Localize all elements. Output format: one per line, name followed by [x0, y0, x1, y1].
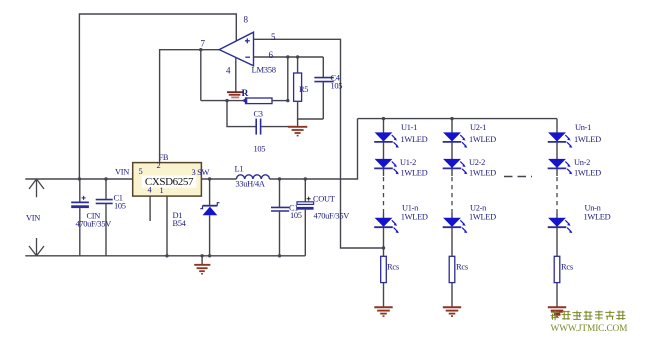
wire ground stem of R5/C4 node [297, 119, 299, 126]
node junction feed / string 2 [450, 117, 453, 120]
wire node to resistor R left lead [201, 100, 246, 102]
wire C3 right branch to ground [261, 126, 296, 128]
wire U2 string lower segment [451, 213, 453, 256]
svg-text:1WLED: 1WLED [469, 213, 496, 222]
wire COUT bottom lead joining bottom rail end [304, 210, 306, 256]
node junction VIN rail / C1 [104, 177, 107, 180]
svg-text:1WLED: 1WLED [401, 169, 428, 178]
svg-text:R5: R5 [299, 85, 308, 94]
LED Un-2 [548, 159, 573, 174]
svg-text:Rcs: Rcs [561, 261, 573, 271]
svg-text:1WLED: 1WLED [469, 169, 496, 178]
wire op-amp supply loop from VIN rail to pin 8 [79, 14, 236, 179]
earth ground of string Un [548, 307, 566, 316]
wire CIN top lead [79, 179, 81, 202]
wire U1 string dashed continuation [383, 177, 385, 213]
wire SW rail from IC pin3 [201, 178, 236, 180]
capacitor CIN (polarized) plates [71, 196, 89, 208]
wire LED anode feed line [358, 118, 558, 120]
capacitor COUT (polarized) plates [297, 197, 314, 210]
svg-text:B54: B54 [173, 219, 187, 228]
node junction ground stem / bottom rail [200, 254, 203, 257]
wire Un string lower segment [556, 213, 558, 256]
inductor L1 coils [236, 175, 269, 179]
svg-text:COUT: COUT [313, 194, 335, 203]
svg-text:105: 105 [254, 145, 266, 154]
wire op-amp pin 5 to LED current-sense node [254, 39, 384, 248]
svg-text:1WLED: 1WLED [584, 213, 611, 222]
node junction D1 / bottom rail [208, 254, 211, 257]
wire IC pin 4 stub [149, 196, 151, 221]
op-amp U2 LM358 triangle [219, 32, 253, 66]
svg-text:33uH/4A: 33uH/4A [236, 180, 265, 189]
node junction C1 out / bottom rail [278, 254, 281, 257]
wire IC pin 1 to ground rail [166, 196, 168, 256]
wire U2 string ground lead [451, 283, 453, 307]
svg-text:1WLED: 1WLED [401, 213, 428, 222]
LED U2-1 [443, 133, 468, 148]
svg-text:5: 5 [139, 167, 143, 176]
svg-text:VIN: VIN [115, 168, 129, 177]
wire U1 string upper segment [383, 119, 385, 176]
LED U2-n [443, 218, 468, 233]
wire R5 top lead [297, 57, 299, 73]
wire Un string upper segment [556, 119, 558, 176]
svg-text:Rcs: Rcs [387, 261, 399, 271]
VIN input terminal down arrow [29, 238, 44, 256]
svg-text:Un-n: Un-n [585, 204, 602, 213]
IC U1 CXSD6257 body [133, 163, 202, 197]
svg-text:1WLED: 1WLED [574, 135, 601, 144]
svg-text:CXSD6257: CXSD6257 [145, 176, 194, 188]
svg-text:Rcs: Rcs [456, 261, 468, 271]
svg-text:1WLED: 1WLED [469, 135, 496, 144]
svg-text:U1-2: U1-2 [400, 158, 416, 167]
wire feedback riser to pin 6 line [287, 57, 289, 101]
wire U1 string ground lead [383, 283, 385, 307]
ellipsis dashes between string U2 and Un [504, 176, 532, 178]
wire CIN bottom lead [79, 208, 81, 256]
wire VIN bottom return rail [25, 255, 305, 257]
svg-text:3 SW: 3 SW [192, 168, 210, 177]
svg-text:U2-2: U2-2 [469, 158, 485, 167]
svg-text:L1: L1 [235, 165, 244, 174]
resistor Rcs of string U2 [449, 256, 455, 282]
node junction R5 / pin 6 line [296, 55, 299, 58]
LED U1-1 [374, 133, 399, 148]
capacitor C3 plates [256, 119, 260, 135]
wire output rail after L1 [270, 119, 358, 179]
wire C1 input bottom lead [105, 203, 107, 255]
node junction pin1 / bottom rail [165, 254, 168, 257]
wire C4 bottom lead [322, 82, 324, 119]
watermark chinese text 嘉泰姆电子元件 [551, 311, 626, 321]
wire C1 input top lead [105, 179, 107, 200]
svg-text:U2-1: U2-1 [470, 123, 486, 132]
svg-text:Un-2: Un-2 [574, 158, 590, 167]
wire op-amp output down to resistor R [200, 50, 202, 101]
wire C3 left branch [227, 101, 256, 127]
wire COUT top lead [304, 179, 306, 202]
earth ground for compensation network [288, 127, 307, 136]
wire D1 cathode lead [209, 179, 211, 205]
wire Un string ground lead [556, 283, 558, 307]
node junction R right / feedback riser [286, 99, 289, 102]
capacitor C1 output plates [271, 207, 289, 211]
LED U2-2 [443, 159, 468, 174]
node junction riser / pin 6 line [286, 55, 289, 58]
earth ground of string U2 [443, 307, 461, 316]
node junction output rail / COUT [304, 177, 307, 180]
svg-text:105: 105 [114, 202, 126, 211]
node junction C3 tap [225, 99, 228, 102]
wire VIN top rail [25, 178, 132, 180]
svg-text:1WLED: 1WLED [401, 135, 428, 144]
resistor R body [242, 97, 272, 103]
wire op-amp pin 6 lead [254, 56, 324, 58]
wire U1 string lower segment [383, 213, 385, 256]
LED U1-n [374, 218, 399, 233]
wire Un string dashed continuation [556, 177, 558, 213]
wire D1 anode lead to ground rail [209, 215, 211, 256]
VIN input terminal up arrow [29, 179, 44, 197]
wire C1 output top lead [279, 179, 281, 207]
capacitor C1 input plates [96, 200, 113, 204]
wire op-amp pin 4 lead [235, 57, 237, 92]
svg-text:U1-1: U1-1 [401, 123, 417, 132]
svg-text:Un-1: Un-1 [575, 123, 591, 132]
svg-text:LM358: LM358 [252, 65, 276, 75]
resistor Rcs of string Un [554, 256, 560, 282]
earth ground for power return [194, 265, 210, 274]
wire U2 string upper segment [451, 119, 453, 176]
node junction SW / D1 [208, 177, 211, 180]
wire C1 output bottom lead [279, 211, 281, 256]
diode D1 schottky symbol [200, 203, 219, 216]
wire FB net from IC pin2 to op-amp output [160, 50, 220, 163]
signal ground below op-amp pin 4 [227, 92, 243, 97]
svg-text:VIN: VIN [26, 214, 40, 223]
node junction output rail / C1 out [278, 177, 281, 180]
earth ground of string U1 [374, 307, 392, 316]
LED Un-1 [548, 133, 573, 148]
wire R5 bottom lead to ground node [298, 101, 324, 119]
svg-text:1: 1 [160, 186, 164, 195]
resistor Rcs of string U1 [381, 256, 387, 282]
svg-text:470uF/35V: 470uF/35V [314, 212, 350, 221]
node junction feed / string 1 [382, 117, 385, 120]
wire ground stem on bottom rail [201, 256, 203, 265]
LED Un-n [548, 218, 573, 233]
node junction VIN rail / supply loop [78, 177, 81, 180]
node junction current-sense / string U1 [382, 246, 385, 249]
svg-text:C3: C3 [254, 110, 263, 119]
LED U1-2 [374, 159, 399, 174]
node junction FB / compensation branch [199, 48, 202, 51]
wire resistor R right lead [272, 100, 288, 102]
svg-text:U1-n: U1-n [402, 204, 419, 213]
svg-text:105: 105 [290, 211, 302, 220]
wire U2 string dashed continuation [451, 177, 453, 213]
wire C4 top lead [322, 57, 324, 77]
svg-text:105: 105 [331, 82, 343, 91]
svg-text:1WLED: 1WLED [574, 169, 601, 178]
svg-text:WWW.JTMIC.COM: WWW.JTMIC.COM [551, 324, 629, 334]
resistor R5 body [294, 73, 302, 101]
capacitor C4 plates [314, 78, 333, 82]
svg-text:U2-n: U2-n [470, 204, 487, 213]
